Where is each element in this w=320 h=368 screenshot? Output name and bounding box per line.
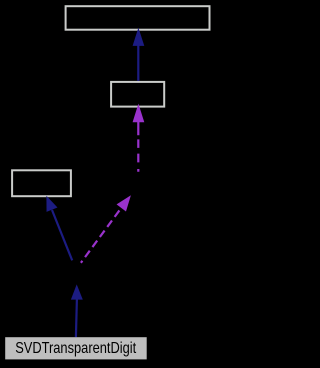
arrowhead into left box — [41, 194, 58, 212]
usage arrow: dashed purple diagonal toward hidden label node — [81, 207, 122, 263]
inheritance arrow: middle box to top box (solid blue, wire) — [137, 44, 139, 81]
usage arrow: dashed purple vertical into middle box bottom — [137, 122, 139, 173]
node: top base-class box (text invisible on black) — [66, 6, 210, 30]
arrowhead of diagonal usage arrow — [117, 192, 136, 212]
arrowhead into middle box — [133, 104, 145, 123]
node: middle class box (text invisible on black) — [111, 82, 164, 107]
node: SVDTransparentDigit (highlighted, grey fill) — [5, 337, 147, 359]
inheritance arrow: vertical solid blue from SVDTransparentDigit up to hidden node — [76, 299, 77, 337]
svg-text:SVDTransparentDigit: SVDTransparentDigit — [15, 340, 136, 357]
node: left base-class box (text invisible on black) — [12, 170, 71, 196]
inheritance arrow: diagonal solid blue into left box bottom — [52, 210, 72, 260]
arrowhead into top box — [133, 28, 145, 46]
arrowhead pointing at hidden node — [71, 284, 83, 299]
